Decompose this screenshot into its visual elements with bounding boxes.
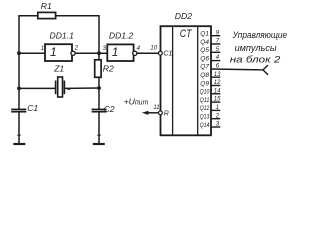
- wire: DD1.1 output to node A to DD1.2 input: [75, 52, 107, 54]
- wire: crystal line right segment to node B: [64, 87, 99, 89]
- svg-text:R: R: [164, 110, 169, 117]
- wire: tick on C1 stem: [17, 134, 21, 136]
- svg-text:на блок 2: на блок 2: [230, 54, 280, 64]
- svg-text:импульсы: импульсы: [235, 43, 277, 53]
- resistor R1: [38, 12, 56, 18]
- wire: node A down to R2 top: [98, 53, 100, 60]
- wire: R2 bottom down to node B: [98, 77, 100, 88]
- op-amp U2: inverter DD1.2: [107, 44, 137, 61]
- wire: DD1.1 input horizontal: [19, 52, 45, 54]
- wire: right feedback vertical down to node A: [98, 15, 100, 53]
- svg-text:2: 2: [74, 45, 79, 51]
- svg-text:C1: C1: [27, 103, 38, 113]
- counter DD2: [161, 26, 212, 135]
- svg-text:Управляющие: Управляющие: [232, 30, 287, 40]
- svg-text:14: 14: [214, 88, 221, 94]
- pin 10 clock input bubble: [159, 51, 163, 55]
- svg-text:CT: CT: [180, 28, 193, 40]
- svg-text:Q13: Q13: [200, 114, 210, 121]
- capacitor C1: [11, 109, 26, 111]
- svg-text:Q11: Q11: [200, 97, 210, 104]
- svg-text:2: 2: [215, 113, 220, 119]
- svg-text:DD1.2: DD1.2: [109, 31, 134, 41]
- op-amp U1: inverter DD1.1: [45, 44, 75, 61]
- svg-text:R1: R1: [41, 1, 52, 11]
- svg-text:C2: C2: [104, 104, 115, 114]
- svg-text:11: 11: [153, 105, 159, 111]
- pin Q4 stub: [211, 43, 220, 45]
- svg-text:Q12: Q12: [200, 105, 210, 112]
- svg-text:Q4: Q4: [200, 39, 209, 46]
- svg-text:C1: C1: [163, 51, 172, 58]
- svg-text:Q5: Q5: [200, 47, 209, 54]
- svg-text:Q9: Q9: [200, 80, 209, 87]
- wire: C2 bottom to ground: [98, 112, 100, 144]
- svg-text:Q10: Q10: [200, 89, 210, 96]
- wire: node B down to C2 top plate: [98, 88, 100, 109]
- output pin numbers: [214, 30, 221, 127]
- svg-text:1: 1: [41, 46, 44, 52]
- wire: crystal line left segment: [19, 87, 56, 89]
- pin Q12 stub: [211, 109, 220, 111]
- pin 11 reset input bubble: [159, 111, 163, 115]
- svg-text:DD2: DD2: [175, 11, 192, 21]
- wire: +Upit line to DD2 R input: [148, 112, 159, 114]
- pin Q14 stub: [211, 126, 220, 128]
- wire Q7 to off-page arrow: [211, 68, 263, 71]
- pin Q10 stub: [211, 93, 220, 95]
- svg-text:13: 13: [214, 72, 221, 78]
- pin Q9 stub: [211, 85, 220, 87]
- ground under C2: [93, 143, 105, 145]
- svg-text:Q1: Q1: [200, 31, 209, 38]
- capacitor C2: [92, 109, 107, 111]
- junction left rail / DD1.1 input: [17, 51, 21, 55]
- node +Upit supply arrow: [124, 97, 149, 115]
- wire: tick on crystal right wire: [67, 88, 70, 90]
- svg-text:Q8: Q8: [200, 72, 209, 79]
- svg-text:Q14: Q14: [200, 122, 210, 129]
- wire: top feedback horizontal left of R1: [18, 15, 38, 17]
- wire: left rail from C1 bottom to ground: [18, 112, 20, 144]
- svg-text:R2: R2: [103, 64, 114, 74]
- pin Q1 stub: [211, 35, 220, 37]
- pin Q5 stub: [211, 51, 220, 53]
- svg-text:Z1: Z1: [53, 64, 64, 74]
- wire: DD1.2 output to DD2 C1 input: [137, 52, 158, 54]
- svg-text:10: 10: [150, 46, 157, 52]
- svg-text:1: 1: [216, 105, 219, 111]
- svg-text:DD1.1: DD1.1: [50, 31, 75, 41]
- resistor R2: [95, 60, 101, 78]
- junction left rail / crystal line: [17, 87, 21, 91]
- node B junction: [97, 86, 101, 90]
- svg-text:Q7: Q7: [200, 64, 209, 71]
- svg-text:15: 15: [214, 97, 221, 103]
- svg-text:12: 12: [214, 80, 221, 86]
- svg-text:1: 1: [112, 45, 119, 59]
- ground under C1: [13, 143, 25, 145]
- node: control pulses label: [230, 30, 287, 64]
- svg-text:Q6: Q6: [200, 55, 209, 62]
- svg-text:1: 1: [50, 45, 57, 59]
- node A junction: [97, 51, 101, 55]
- output pins of DD2: [211, 36, 263, 127]
- wire: tick on C2 stem: [97, 134, 101, 136]
- wire: top feedback horizontal right of R1: [56, 15, 99, 17]
- off-page arrowhead: [263, 65, 268, 75]
- wire: left rail vertical from top wire down to C1: [18, 16, 20, 110]
- crystal Z1: [56, 77, 65, 97]
- pin Q11 stub: [211, 101, 220, 103]
- pin Q8 stub: [211, 76, 220, 78]
- pin Q13 stub: [211, 118, 220, 120]
- output labels Q1..Q14: [200, 31, 210, 129]
- pin Q6 stub: [211, 60, 220, 62]
